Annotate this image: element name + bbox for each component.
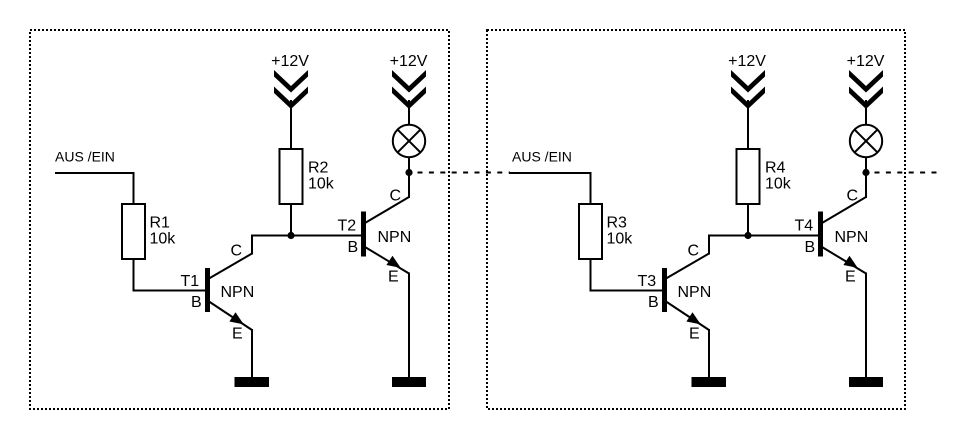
lamp symbol circle xyxy=(393,125,425,157)
supply +12V symbol (above lamp) xyxy=(392,70,426,109)
wire T3 collector vertical xyxy=(708,235,710,255)
transistor T4 collector diagonal xyxy=(822,197,866,223)
svg-text:B: B xyxy=(805,239,816,256)
svg-text:T1: T1 xyxy=(181,273,200,290)
svg-text:E: E xyxy=(689,326,700,343)
transistor T1 emitter diagonal xyxy=(209,302,252,331)
wire lamp to supply vertical xyxy=(865,100,867,125)
svg-text:10k: 10k xyxy=(308,175,335,192)
svg-text:R4: R4 xyxy=(765,159,786,176)
svg-text:T4: T4 xyxy=(795,218,814,235)
wire T3 emitter vertical xyxy=(708,329,710,377)
transistor T3 emitter arrow xyxy=(686,312,700,324)
transistor T2 emitter arrow xyxy=(386,256,400,268)
wire T2 collector vertical to lamp node xyxy=(408,156,410,198)
wire box2 input solid stub xyxy=(509,172,512,174)
wire dashed continuation to right edge xyxy=(875,172,942,174)
svg-text:NPN: NPN xyxy=(221,284,255,301)
resistor R2 xyxy=(280,149,303,204)
enclosure dotted box 1 xyxy=(30,30,449,409)
lamp symbol X stroke 2 xyxy=(854,129,877,152)
svg-text:E: E xyxy=(232,326,243,343)
lamp symbol X stroke 1 xyxy=(854,129,877,152)
lamp symbol X stroke 2 xyxy=(397,129,420,152)
wire R3 to base corner vertical xyxy=(590,259,592,292)
svg-text:E: E xyxy=(388,268,399,285)
transistor T3 emitter diagonal xyxy=(666,302,709,331)
svg-text:E: E xyxy=(845,268,856,285)
svg-text:T3: T3 xyxy=(638,273,657,290)
svg-text:R2: R2 xyxy=(308,159,329,176)
svg-text:+12V: +12V xyxy=(390,53,428,70)
svg-text:10k: 10k xyxy=(765,175,792,192)
svg-text:C: C xyxy=(847,188,859,205)
svg-text:R3: R3 xyxy=(607,214,628,231)
wire node to R4 vertical xyxy=(747,204,749,236)
ground symbol (T2 emitter) xyxy=(392,377,426,387)
svg-text:AUS /EIN: AUS /EIN xyxy=(512,149,572,165)
wire node to R2 vertical xyxy=(290,204,292,236)
ground symbol (T4 emitter) xyxy=(849,377,883,387)
svg-text:10k: 10k xyxy=(607,230,634,247)
junction node dot (lamp output) xyxy=(405,169,412,176)
transistor T3 collector diagonal xyxy=(666,254,709,279)
svg-text:B: B xyxy=(191,294,202,311)
transistor T4 emitter arrow xyxy=(843,256,857,268)
transistor T4 emitter diagonal xyxy=(822,247,866,274)
junction node dot (collector net) xyxy=(744,232,751,239)
wire collector node horizontal xyxy=(251,235,361,237)
wire base horizontal to T1 xyxy=(134,290,206,292)
ground symbol (T1 emitter) xyxy=(235,377,270,387)
svg-text:NPN: NPN xyxy=(378,229,412,246)
transistor T3 base bar xyxy=(662,268,667,312)
supply +12V symbol (above lamp) xyxy=(849,70,883,109)
wire T1 collector vertical xyxy=(251,235,253,255)
transistor T2 emitter diagonal xyxy=(365,247,409,274)
ground symbol (T3 emitter) xyxy=(692,377,727,387)
resistor R4 xyxy=(737,149,760,204)
wire T1 emitter vertical xyxy=(251,329,253,377)
transistor T2 base bar xyxy=(361,212,366,257)
junction node dot (collector net) xyxy=(287,232,294,239)
supply +12V symbol (above R2) xyxy=(274,70,308,109)
wire input vertical down xyxy=(590,172,592,205)
wire R2 to supply vertical xyxy=(290,100,292,149)
wire input horizontal xyxy=(512,172,592,174)
transistor T4 base bar xyxy=(818,212,823,257)
supply +12V symbol (above R4) xyxy=(731,70,765,109)
svg-text:B: B xyxy=(648,294,659,311)
transistor T1 collector diagonal xyxy=(209,254,252,279)
wire T4 emitter vertical xyxy=(865,273,867,378)
wire T2 emitter vertical xyxy=(408,273,410,378)
enclosure dotted box 2 xyxy=(487,30,905,409)
svg-text:C: C xyxy=(688,243,700,260)
wire R1 to base corner vertical xyxy=(133,259,135,292)
svg-text:T2: T2 xyxy=(338,218,357,235)
resistor R1 xyxy=(122,204,145,259)
svg-text:+12V: +12V xyxy=(271,53,309,70)
svg-text:NPN: NPN xyxy=(835,229,869,246)
wire dashed link box1 output to box2 input xyxy=(418,172,511,174)
svg-text:R1: R1 xyxy=(150,214,171,231)
wire input horizontal xyxy=(55,172,135,174)
svg-text:NPN: NPN xyxy=(678,284,712,301)
svg-text:B: B xyxy=(348,239,359,256)
wire collector node horizontal xyxy=(708,235,818,237)
transistor T2 collector diagonal xyxy=(365,197,409,223)
wire input vertical down xyxy=(133,172,135,205)
wire T4 collector vertical to lamp node xyxy=(865,156,867,198)
wire R4 to supply vertical xyxy=(747,100,749,149)
svg-text:+12V: +12V xyxy=(728,53,766,70)
resistor R3 xyxy=(579,204,602,259)
svg-text:C: C xyxy=(390,188,402,205)
transistor T1 emitter arrow xyxy=(229,312,243,324)
svg-text:+12V: +12V xyxy=(847,53,885,70)
wire lamp to supply vertical xyxy=(408,100,410,125)
wire base horizontal to T3 xyxy=(591,290,663,292)
svg-text:AUS /EIN: AUS /EIN xyxy=(55,149,115,165)
svg-text:10k: 10k xyxy=(150,230,177,247)
svg-text:C: C xyxy=(231,243,243,260)
lamp symbol circle xyxy=(850,125,882,157)
junction node dot (lamp output) xyxy=(862,169,869,176)
lamp symbol X stroke 1 xyxy=(397,129,420,152)
transistor T1 base bar xyxy=(205,268,210,312)
